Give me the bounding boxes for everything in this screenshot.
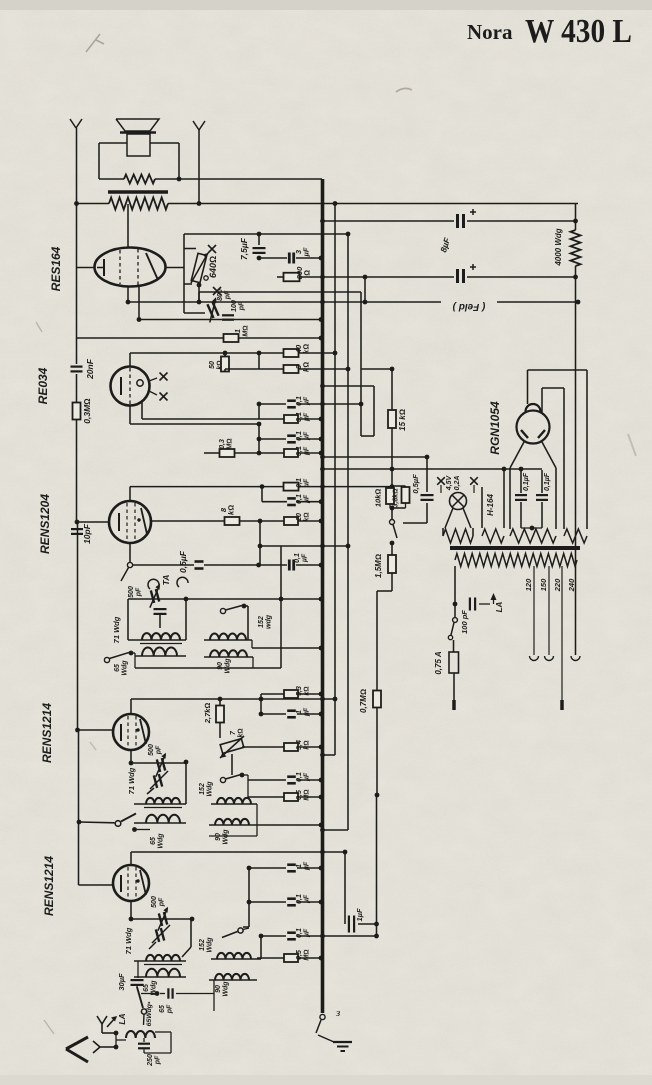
- wire line936: [259, 934, 379, 939]
- label 65Wdg c: [143, 980, 158, 996]
- capacitor 0,1uF l: [289, 560, 293, 571]
- svg-text:10kΩ: 10kΩ: [374, 489, 383, 508]
- label 01k: [296, 928, 311, 938]
- wire ct link: [521, 527, 542, 529]
- wire coil3c base: [134, 976, 186, 978]
- wire coil2c base: [211, 958, 257, 960]
- wire line221: [320, 219, 575, 224]
- resistor 20kOhm: [284, 517, 298, 525]
- svg-text:Wdg: Wdg: [207, 781, 214, 797]
- svg-text:µF: µF: [302, 247, 311, 257]
- speaker magnet: [127, 134, 150, 156]
- svg-text:µF: µF: [304, 396, 311, 406]
- label 800Ohm: [295, 266, 312, 279]
- wire coil4a base: [204, 656, 253, 658]
- wire v365: [363, 277, 368, 304]
- svg-text:kΩ: kΩ: [304, 740, 311, 749]
- svg-text:0,1: 0,1: [296, 396, 303, 406]
- transformer core: [108, 190, 168, 194]
- tube RENS1204 cathode: [118, 513, 120, 531]
- label 01h: [544, 472, 551, 491]
- svg-text:wdg: wdg: [266, 614, 273, 629]
- wire 75uF to line258: [257, 256, 262, 261]
- wire line353: [130, 351, 337, 356]
- label 4000Wdg: [554, 228, 563, 266]
- tube RE034 anode: [137, 380, 143, 386]
- label LA: [117, 1013, 127, 1024]
- wire v392c: [390, 506, 395, 519]
- svg-text:120: 120: [524, 578, 533, 591]
- inductor 152Wdg a: [210, 633, 246, 640]
- wire par resistors: [390, 486, 406, 508]
- svg-text:0,3MΩ: 0,3MΩ: [82, 398, 92, 424]
- capacitor 500pF var2a: [151, 753, 172, 777]
- svg-text:0,1: 0,1: [296, 894, 303, 904]
- svg-text:500: 500: [128, 586, 135, 598]
- switch bf2 left: [77, 814, 136, 827]
- svg-text:Ω: Ω: [303, 270, 312, 276]
- resistor 800Ohm: [284, 273, 300, 282]
- svg-text:71 Wdg: 71 Wdg: [124, 927, 133, 954]
- label 01j: [296, 894, 311, 904]
- wire rgn frame outer: [528, 370, 588, 529]
- wire line797: [248, 795, 323, 800]
- wire cap legs: [521, 469, 542, 528]
- wire smudge a: [86, 34, 104, 52]
- terminal x lower: [213, 287, 221, 295]
- wire line852: [131, 850, 347, 855]
- wire coil1a base: [128, 640, 186, 644]
- switch bf1: [220, 604, 246, 614]
- wire ant box right: [116, 1032, 171, 1053]
- terminal x re034 b: [149, 391, 168, 401]
- label 02A: [454, 476, 461, 491]
- wire line699: [131, 697, 337, 702]
- label 800pF: [217, 289, 232, 301]
- wire cathode drop1: [126, 286, 131, 304]
- wire line439: [259, 437, 323, 442]
- svg-text:1µF: 1µF: [355, 908, 364, 921]
- wire line386: [320, 384, 374, 389]
- tube RE034: [111, 367, 150, 406]
- wire pad1 down: [159, 614, 161, 628]
- wire line369b: [348, 367, 394, 372]
- potentiometer 7kOhm: [220, 736, 244, 758]
- svg-text:MΩ: MΩ: [304, 949, 311, 960]
- tube RENS1214b anode: [136, 870, 146, 895]
- switch bf3: [222, 928, 249, 938]
- label 45V: [446, 474, 453, 491]
- svg-text:pF: pF: [159, 897, 166, 907]
- wire varcap links2: [129, 761, 186, 766]
- resistor 0,5MOhm a: [284, 793, 298, 801]
- wire rens1214b cath: [129, 901, 134, 921]
- label 20nF: [85, 358, 95, 380]
- capacitor 500pF var3b: [149, 925, 170, 949]
- wire lamp legs: [445, 508, 471, 528]
- terminal x lamp b: [470, 477, 478, 493]
- wire line714: [261, 712, 323, 717]
- wire line958: [257, 956, 323, 961]
- tap hook 240: [571, 656, 580, 660]
- wire la arrow: [479, 593, 497, 604]
- arrow la: [107, 1016, 117, 1027]
- wire coil3a base: [135, 655, 186, 657]
- plus b: [470, 264, 476, 270]
- resistor 50kOhm: [221, 357, 229, 372]
- resistor 3,8kOhm: [402, 487, 410, 503]
- svg-text:0,75 A: 0,75 A: [434, 651, 443, 674]
- svg-text:H-164: H-164: [486, 494, 495, 516]
- wire v192: [182, 919, 191, 957]
- svg-text:800: 800: [217, 289, 224, 301]
- lamp 4,5V: [450, 493, 467, 510]
- svg-text:RES164: RES164: [49, 246, 63, 291]
- svg-text:Wdg: Wdg: [158, 833, 165, 849]
- capacitor 250pF: [138, 1038, 150, 1053]
- tube RES164 anode: [146, 253, 158, 280]
- capacitor 0,1uF f: [287, 498, 296, 505]
- wire speaker frame: [99, 143, 179, 179]
- wire v392e: [377, 573, 392, 591]
- wire coil3b base: [134, 822, 186, 824]
- svg-text:65Wdg•: 65Wdg•: [146, 1001, 153, 1026]
- capacitor 8uF b: [458, 269, 464, 283]
- capacitor padder1: [154, 609, 167, 614]
- wire line179: [99, 178, 322, 180]
- capacitor 0,1uF d: [284, 449, 298, 457]
- svg-text:µF: µF: [304, 494, 311, 504]
- svg-text:0,5: 0,5: [296, 950, 303, 960]
- label 90Wdg b: [215, 829, 230, 845]
- tube RGN1054 top: [526, 404, 541, 412]
- label 71Wdg b: [127, 767, 136, 794]
- label 20kOhm: [296, 512, 311, 522]
- label Feld: [452, 301, 485, 312]
- wire line338: [77, 336, 324, 341]
- svg-text:0,1: 0,1: [296, 928, 303, 938]
- antenna fork 1: [70, 119, 82, 128]
- svg-text:kΩ: kΩ: [227, 505, 236, 515]
- wire v427: [426, 457, 428, 492]
- resistor 1MOhm: [224, 334, 239, 342]
- tube RENS1214a grid: [128, 716, 136, 748]
- wire ant in 2: [100, 1045, 118, 1050]
- capacitor 3uF: [289, 253, 293, 264]
- wire line924: [345, 922, 379, 927]
- inductor 65Wdg a: [142, 648, 177, 656]
- tube RES164 cathode: [97, 259, 104, 276]
- svg-text:0,7MΩ: 0,7MΩ: [359, 689, 368, 713]
- label 100pF3: [460, 610, 469, 634]
- inductor heater w4: [564, 529, 587, 543]
- svg-text:2,7kΩ: 2,7kΩ: [203, 703, 212, 725]
- node frame: [177, 177, 182, 182]
- wire line419: [142, 417, 323, 422]
- wire bf1 left: [127, 599, 129, 640]
- wire bf2 bottom: [209, 825, 257, 836]
- svg-text:µF: µF: [304, 412, 311, 422]
- label 65Wdg b: [150, 833, 165, 849]
- label 01d: [296, 446, 311, 456]
- label 05Mb: [296, 949, 311, 960]
- capacitor 0,1uF c: [287, 436, 296, 443]
- tap hook 150: [545, 656, 554, 661]
- wire 75uF drop: [258, 234, 260, 245]
- label RENS1204: [38, 494, 52, 554]
- capacitor 0,1uF g: [515, 495, 527, 500]
- label 01l: [294, 553, 309, 563]
- wire line902: [249, 900, 323, 905]
- svg-text:0,5µF: 0,5µF: [178, 550, 188, 573]
- tap hook 120: [530, 656, 539, 661]
- svg-text:90: 90: [215, 985, 222, 993]
- svg-text:3,8kΩ: 3,8kΩ: [393, 488, 400, 507]
- svg-text:RENS1214: RENS1214: [42, 856, 56, 916]
- fuse 0,75A: [449, 640, 459, 673]
- svg-text:240: 240: [567, 578, 576, 592]
- svg-text:µF: µF: [304, 707, 311, 717]
- inductor primary: [455, 554, 577, 567]
- wire line565: [133, 563, 324, 568]
- wire line234: [204, 233, 348, 235]
- wire v259b: [258, 404, 260, 419]
- inductor heater w2: [482, 528, 504, 543]
- svg-text:µF: µF: [304, 446, 311, 456]
- capacitor 0,5uF b: [421, 495, 434, 500]
- tube RENS1204: [109, 501, 151, 543]
- label 05Ma: [296, 789, 311, 800]
- svg-text:15 kΩ: 15 kΩ: [398, 409, 407, 431]
- wire line648: [252, 640, 323, 650]
- label 3kOhm: [294, 362, 311, 372]
- inductor 65Wdg b: [146, 815, 180, 823]
- svg-text:0,1µF: 0,1µF: [544, 472, 551, 491]
- inductor hv w3: [510, 529, 556, 543]
- wire coil1c base: [134, 961, 186, 965]
- svg-text:µF: µF: [304, 772, 311, 782]
- label 71Wdg c: [124, 927, 133, 954]
- speaker horn: [116, 119, 159, 131]
- svg-text:3,4: 3,4: [296, 740, 303, 750]
- label 34k: [296, 740, 311, 750]
- label 01a: [296, 396, 311, 406]
- inductor heater w1: [443, 528, 473, 543]
- svg-text:500: 500: [151, 896, 158, 908]
- tube RENS1214a cathode: [120, 724, 122, 741]
- label 7,5uF: [239, 237, 249, 260]
- svg-text:pF: pF: [155, 1055, 162, 1065]
- label 65Wdg e: [146, 1001, 153, 1026]
- tube RENS1204 grid: [127, 503, 135, 541]
- svg-text:RE034: RE034: [36, 367, 50, 404]
- svg-text:LA: LA: [495, 601, 504, 612]
- svg-text:0,1: 0,1: [296, 494, 303, 504]
- wire line521: [152, 519, 324, 524]
- capacitor 0,1uF j: [287, 899, 296, 906]
- resistor 5,3kOhm: [284, 690, 298, 698]
- capacitor 20nF: [71, 367, 83, 372]
- capacitor 1uF a: [287, 711, 296, 718]
- wire sw2 right: [242, 775, 248, 797]
- label 152Wdg a: [258, 614, 273, 629]
- label 90Wdg a: [217, 658, 232, 674]
- wire v345: [344, 852, 346, 924]
- svg-text:µF: µF: [304, 928, 311, 938]
- wire sw1 right: [244, 606, 248, 640]
- wire line404: [257, 402, 364, 407]
- wire line277 left: [277, 276, 283, 278]
- capacitor 0,1uF e: [284, 483, 299, 491]
- wire bf1 bottom: [135, 657, 281, 668]
- wire v186a: [185, 599, 187, 640]
- label 53k: [296, 686, 311, 696]
- svg-text:kΩ: kΩ: [302, 362, 311, 372]
- svg-text:з: з: [335, 1007, 340, 1019]
- svg-text:0,5: 0,5: [296, 790, 303, 800]
- wire v259a: [258, 353, 260, 369]
- title Nora: [467, 20, 513, 44]
- wire line755: [320, 753, 335, 758]
- pot wiper circle: [204, 276, 208, 280]
- label 10kOhm: [374, 489, 383, 508]
- node line234 cap: [257, 232, 262, 237]
- label 01g: [523, 472, 530, 491]
- label 01f: [296, 494, 311, 504]
- label 50kOhm: [209, 360, 224, 369]
- wire coil4c base: [209, 979, 257, 981]
- svg-text:220: 220: [553, 578, 562, 592]
- label 152Wdg c: [199, 937, 214, 953]
- svg-text:kΩ: kΩ: [217, 360, 224, 369]
- label 8kOhm: [219, 505, 236, 515]
- switch hv: [390, 520, 398, 539]
- label 150: [539, 578, 548, 591]
- label s: [335, 1007, 340, 1019]
- svg-text:kΩ: kΩ: [304, 686, 311, 695]
- svg-text:1: 1: [296, 710, 303, 714]
- label RGN1054: [488, 401, 502, 455]
- wire line830: [320, 828, 348, 833]
- wire line457: [320, 455, 429, 460]
- inductor antenna: [126, 1031, 155, 1038]
- capacitor 100pF fixed: [222, 315, 234, 319]
- title W430L: [525, 13, 632, 50]
- svg-text:µF: µF: [302, 553, 309, 563]
- wire h164 legs: [482, 469, 504, 528]
- wire rgn frame inner: [542, 388, 564, 529]
- mains prong a: [453, 673, 455, 710]
- node rens1214a left: [75, 728, 80, 733]
- wire rens1214a top: [130, 699, 132, 714]
- wire line868: [247, 866, 324, 871]
- wire to ground: [318, 1035, 334, 1042]
- capacitor 0,1uF b: [284, 415, 298, 423]
- svg-text:RENS1214: RENS1214: [40, 703, 54, 763]
- svg-text:Wdg: Wdg: [223, 981, 230, 997]
- svg-text:kΩ: kΩ: [302, 344, 311, 354]
- resistor 15kOhm: [388, 410, 396, 428]
- svg-text:5,3: 5,3: [296, 686, 303, 696]
- antenna fork 4: [93, 1041, 100, 1053]
- wire line825r: [257, 804, 323, 827]
- label 100pF2: [231, 300, 246, 312]
- label 05uFb: [411, 474, 420, 494]
- tube RES164 grid: [120, 249, 138, 285]
- label 152Wdg b: [199, 781, 214, 797]
- wire line469: [320, 467, 542, 472]
- wire res164 anode out: [166, 234, 206, 313]
- label 500pF c: [151, 896, 166, 908]
- capacitor 500pF var3a: [153, 907, 174, 931]
- svg-text:90: 90: [215, 833, 222, 841]
- tube RE034 cathode: [120, 377, 122, 395]
- label RES164: [49, 246, 63, 291]
- label LA2: [495, 601, 504, 612]
- tube RGN1054 filament: [521, 430, 545, 438]
- label 7k: [230, 728, 245, 737]
- svg-text:MΩ: MΩ: [243, 325, 250, 336]
- svg-text:1: 1: [296, 864, 303, 868]
- resistor 0,3MOhm: [73, 403, 81, 420]
- label TA: [161, 575, 171, 586]
- wire rgn leg l: [510, 442, 524, 529]
- resistor 3,4kOhm: [284, 743, 298, 751]
- switch bf2: [220, 773, 244, 783]
- inductor 152Wdg c: [217, 953, 251, 959]
- label 03M: [219, 438, 234, 449]
- wire line919: [131, 917, 194, 922]
- svg-text:µF: µF: [304, 894, 311, 904]
- label RENS1214 b: [42, 856, 56, 916]
- inductor 90Wdg b: [215, 819, 249, 825]
- wire line696: [261, 692, 323, 697]
- wire v427b: [403, 503, 427, 523]
- capacitor 0,1uF k: [287, 933, 296, 940]
- tube RENS1214 a: [113, 714, 149, 750]
- svg-text:0,1: 0,1: [296, 446, 303, 456]
- wire v186b: [184, 760, 189, 804]
- capacitor 0,1uF a: [287, 401, 296, 408]
- wire v262: [261, 487, 263, 502]
- inductor 90Wdg a: [210, 650, 247, 657]
- label 65Wdg a: [114, 660, 129, 676]
- svg-text:pF: pF: [167, 1004, 174, 1014]
- label 01i: [296, 772, 311, 782]
- potentiometer 640Ohm: [191, 253, 208, 283]
- wire smudge c: [36, 322, 54, 1034]
- node heater ct: [530, 526, 535, 531]
- tube RE034 grid: [129, 368, 131, 404]
- wire sw2l: [132, 827, 150, 832]
- label 3uF: [294, 247, 311, 257]
- node rens1204 left: [75, 520, 80, 525]
- wire rens1204 top: [129, 487, 131, 501]
- capacitor 0,1uF h: [536, 495, 548, 500]
- svg-text:20nF: 20nF: [85, 358, 95, 380]
- inductor output primary: [109, 198, 168, 210]
- svg-text:150: 150: [539, 578, 548, 591]
- label RE034: [36, 367, 50, 404]
- wire v249: [243, 868, 251, 927]
- capacitor 7,5uF: [253, 248, 266, 253]
- svg-text:30µF: 30µF: [117, 973, 126, 991]
- label 500pF b: [148, 744, 163, 756]
- wire line486: [130, 484, 394, 489]
- svg-text:0,5µF: 0,5µF: [411, 474, 420, 494]
- svg-text:1: 1: [235, 329, 242, 333]
- label 01c: [296, 431, 311, 441]
